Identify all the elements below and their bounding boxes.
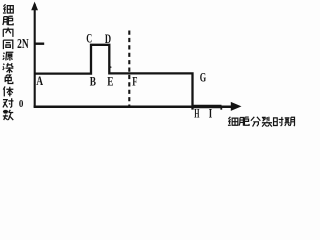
tick at I (220, 106, 222, 110)
svg-text:2N: 2N (17, 36, 29, 51)
2N tick (35, 43, 44, 45)
curve: A-B mid level, B-C rise, C-D top (2N), D-E fall, E-G mid level, G drop to axis (35, 45, 193, 110)
svg-text:G: G (200, 70, 206, 85)
y-axis arrowhead (31, 2, 38, 11)
svg-text:C: C (86, 30, 92, 45)
curve: zero-level segment H-I on axis (192, 105, 222, 108)
x-axis arrowhead (231, 102, 242, 111)
svg-text:E: E (107, 73, 113, 88)
dashed vertical line at F (128, 31, 130, 107)
svg-text:H: H (194, 106, 199, 121)
y-axis (34, 4, 36, 107)
svg-text:A: A (36, 73, 43, 88)
svg-text:0: 0 (19, 99, 24, 110)
x-axis label 细胞分裂时期 (228, 117, 295, 127)
svg-text:B: B (90, 73, 96, 88)
svg-text:F: F (132, 73, 137, 88)
svg-text:I: I (209, 106, 212, 121)
x-axis (34, 106, 233, 109)
stray dot above E (110, 66, 112, 68)
svg-text:D: D (105, 31, 111, 46)
y-axis label 细胞内同源染色体对数 (vertical column) (3, 4, 14, 120)
